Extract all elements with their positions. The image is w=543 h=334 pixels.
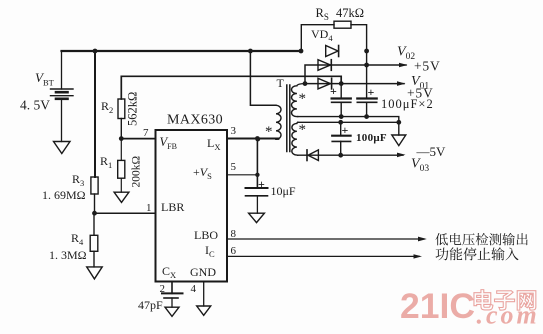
svg-text:7: 7 — [143, 127, 149, 139]
svg-text:6: 6 — [231, 245, 237, 257]
svg-text:.com: .com — [477, 301, 540, 330]
svg-text:*: * — [299, 91, 307, 107]
svg-text:10μF: 10μF — [271, 184, 296, 198]
svg-text:8: 8 — [231, 228, 237, 240]
svg-text:3: 3 — [231, 125, 237, 137]
svg-text:562kΩ: 562kΩ — [126, 92, 140, 126]
svg-text:100μF×2: 100μF×2 — [381, 97, 434, 111]
svg-text:+5V: +5V — [414, 59, 441, 74]
svg-text:MAX630: MAX630 — [167, 113, 223, 128]
svg-text:GND: GND — [190, 265, 216, 279]
svg-text:4: 4 — [191, 283, 197, 295]
svg-text:5: 5 — [231, 161, 237, 173]
svg-text:200kΩ: 200kΩ — [131, 156, 143, 188]
svg-text:T: T — [277, 76, 285, 90]
svg-text:+: + — [330, 84, 337, 98]
svg-text:*: * — [265, 124, 273, 140]
svg-text:+: + — [258, 177, 265, 191]
svg-text:4. 5V: 4. 5V — [20, 98, 50, 113]
svg-text:47kΩ: 47kΩ — [336, 6, 364, 20]
svg-text:2: 2 — [160, 283, 166, 295]
svg-text:*: * — [299, 122, 307, 138]
svg-text:LBR: LBR — [161, 200, 184, 214]
svg-text:1: 1 — [146, 202, 152, 214]
svg-text:100μF: 100μF — [356, 132, 387, 144]
svg-text:—5V: —5V — [416, 144, 447, 159]
svg-text:47pF: 47pF — [138, 298, 163, 312]
svg-text:LBO: LBO — [194, 228, 218, 242]
svg-text:21IC: 21IC — [400, 286, 475, 326]
svg-text:1. 69MΩ: 1. 69MΩ — [42, 188, 86, 202]
svg-text:+: + — [368, 85, 375, 99]
svg-text:+: + — [342, 123, 349, 137]
svg-text:1. 3MΩ: 1. 3MΩ — [49, 248, 87, 262]
